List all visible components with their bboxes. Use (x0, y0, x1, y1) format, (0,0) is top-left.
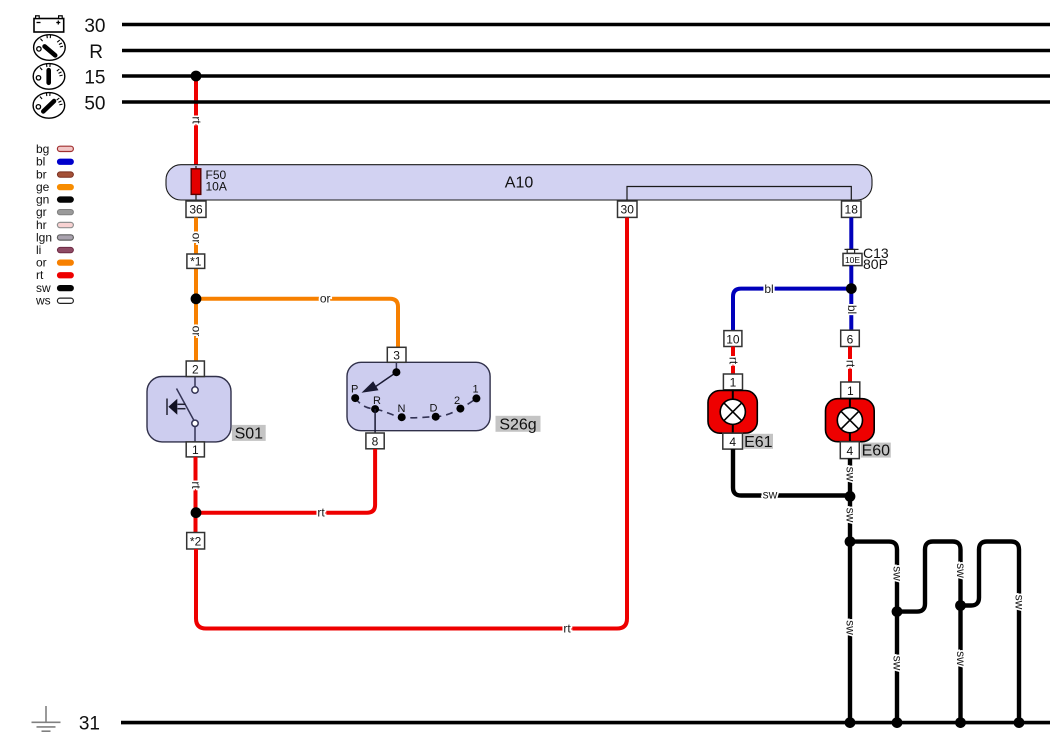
splice *1 (187, 254, 205, 269)
svg-text:10: 10 (726, 332, 740, 346)
svg-text:*2: *2 (190, 535, 202, 549)
svg-text:6: 6 (847, 332, 854, 346)
junction of rt net below S01 (191, 507, 202, 518)
wire sw from E60 pin 4 down to bus 31 (848, 459, 852, 723)
pin 30 of A10 (618, 201, 638, 217)
S26g selector arm with arrow to P (362, 372, 397, 393)
svg-text:A10: A10 (505, 175, 534, 192)
svg-text:10A: 10A (206, 180, 227, 194)
svg-text:sw: sw (1013, 595, 1027, 610)
wire colour legend sw (36, 281, 73, 295)
switch S01 designator label (232, 425, 266, 443)
pin 4 of E60 (840, 442, 859, 459)
junction bus 31 at x=850 (845, 717, 856, 728)
pin 36 of A10 (186, 201, 206, 217)
lamp E61 bulb circle (720, 399, 745, 424)
wire colour legend li (36, 243, 73, 257)
svg-text:R: R (89, 42, 103, 63)
svg-text:1: 1 (847, 384, 854, 398)
ground symbol at bus 31 (32, 706, 61, 731)
S26g common contact lead (395, 362, 397, 372)
S26g position labels P R N D 2 1 (351, 383, 479, 415)
pin 1 of E60 (841, 382, 860, 398)
ground mesh loop 1 wire (850, 542, 897, 723)
wire colour legend ws (35, 294, 73, 308)
wire bl from C13 to junction and E60 pin 6 (849, 266, 853, 331)
wire sw from E61 pin 4 to junction (733, 449, 850, 495)
svg-text:sw: sw (844, 508, 858, 523)
svg-text:or: or (320, 292, 331, 306)
wire colour legend gn (36, 193, 73, 207)
pin 1 of E61 (723, 374, 742, 390)
wire rt from S01 pin 1 to junction and splice *2 (194, 457, 198, 533)
svg-text:ws: ws (35, 294, 51, 308)
lamp E60 body (826, 399, 875, 442)
svg-text:8: 8 (372, 435, 379, 449)
svg-text:*1: *1 (190, 255, 202, 269)
switch S01 internal contacts and blade (177, 377, 199, 442)
svg-text:bl: bl (764, 282, 773, 296)
wire colour legend ge (36, 180, 73, 194)
wire colour legend hr (36, 218, 73, 232)
junction mesh loop 2 (892, 606, 903, 617)
junction sw net at E61 branch (845, 491, 856, 502)
svg-text:10E: 10E (845, 255, 860, 265)
svg-text:rt: rt (844, 360, 858, 368)
svg-text:2: 2 (192, 362, 199, 376)
internal link pin 30 to pin 18 inside A10 (627, 187, 851, 203)
wire bl from A10 pin 18 to connector C13 (849, 218, 853, 250)
lamp E61 internal leads (732, 390, 734, 400)
fuse F50 body (191, 169, 201, 195)
svg-text:1: 1 (192, 443, 199, 457)
svg-text:P: P (351, 383, 358, 395)
pin 1 of S01 (186, 442, 204, 457)
ground mesh loop 3 wire (961, 542, 1020, 723)
junction on bus 15 (191, 71, 202, 82)
junction bus 31 at x=1019 (1014, 717, 1025, 728)
wire or from pin 36 down through *1 to junction and S01 pin 2 (194, 218, 198, 362)
svg-text:sw: sw (891, 656, 905, 671)
lamp E60 internal leads (849, 398, 851, 408)
svg-text:3: 3 (393, 348, 400, 362)
svg-text:4: 4 (729, 435, 736, 449)
fuse F50 lead (195, 166, 197, 201)
ignition switch icon position 15 (33, 64, 65, 90)
ignition switch icon position R (34, 35, 66, 61)
bus 30 wire (122, 23, 1050, 26)
switch S01 box (147, 377, 231, 442)
wire colour legend or (36, 256, 73, 270)
wire colour legend lgn (36, 231, 73, 245)
lamp E61 body (708, 391, 757, 434)
wire bl branch to E61 pin 10 (733, 289, 851, 331)
svg-text:30: 30 (621, 203, 635, 217)
wire colour legend bg (36, 142, 73, 156)
ignition switch icon position 50 (33, 93, 65, 119)
S26g contact dots (351, 368, 480, 421)
lamp E61 designator label (744, 434, 774, 451)
wire rt from S26g pin 8 to junction (196, 449, 375, 513)
wire or branch to S26g pin 3 (196, 299, 398, 348)
wire colour legend rt (36, 268, 73, 282)
control unit A10 box (166, 165, 872, 200)
S26g pin R lead down to pin 8 (374, 409, 376, 433)
wire rt from bus 15 to fuse F50 (194, 76, 198, 169)
junction of or net (191, 293, 202, 304)
pin 18 of A10 (842, 201, 862, 217)
pin 4 of E61 (723, 433, 743, 449)
svg-text:N: N (398, 403, 406, 415)
wire rt from *2 down, across, and up to A10 pin 30 (196, 218, 627, 629)
bus 31 wire (121, 721, 1050, 725)
svg-text:sw: sw (954, 563, 968, 578)
svg-text:or: or (190, 326, 204, 337)
svg-text:18: 18 (845, 203, 859, 217)
svg-text:rt: rt (190, 116, 204, 124)
lamp E60 designator label (861, 443, 891, 460)
svg-text:80P: 80P (863, 256, 888, 272)
svg-text:rt: rt (189, 481, 203, 489)
wire rt pin 10 to E61 pin 1 (731, 347, 735, 375)
svg-text:1: 1 (730, 376, 737, 390)
junction mesh loop 3 (955, 600, 966, 611)
svg-text:30: 30 (84, 16, 105, 37)
pin 10 of E61 (724, 331, 742, 347)
switch S01 actuator (push symbol) (167, 399, 186, 416)
pin 8 of S26g (366, 433, 384, 449)
pin 3 of S26g (387, 347, 406, 362)
svg-text:bl: bl (845, 305, 859, 314)
svg-text:15: 15 (84, 68, 105, 89)
svg-text:31: 31 (79, 714, 100, 735)
svg-text:4: 4 (846, 444, 853, 458)
pin 2 of S01 (186, 361, 204, 377)
selector switch S26g designator label (496, 416, 541, 434)
svg-text:rt: rt (563, 622, 571, 636)
svg-text:sw: sw (844, 620, 858, 635)
svg-text:36: 36 (189, 203, 203, 217)
svg-text:rt: rt (727, 357, 741, 365)
wire rt pin 6 to E60 pin 1 (848, 347, 852, 383)
svg-text:E61: E61 (744, 434, 773, 451)
svg-text:sw: sw (844, 467, 858, 482)
junction bus 31 at x=897 (892, 717, 903, 728)
battery symbol (terminal 30) (34, 16, 64, 32)
connector C13 symbol (845, 249, 859, 253)
lamp E60 bulb circle (837, 408, 862, 433)
svg-text:sw: sw (763, 488, 778, 502)
svg-text:1: 1 (473, 383, 479, 395)
svg-text:sw: sw (954, 651, 968, 666)
splice *2 (187, 533, 205, 550)
selector switch S26g box (347, 362, 490, 430)
pin 6 of E60 (841, 330, 860, 346)
svg-text:R: R (373, 395, 381, 407)
wire colour legend bl (36, 155, 73, 169)
connector C13 pin 10E box (843, 253, 862, 265)
svg-text:2: 2 (454, 395, 460, 407)
svg-text:or: or (190, 233, 204, 244)
ground mesh loop 2 wire (897, 542, 961, 723)
wire colour legend gr (36, 205, 73, 219)
svg-text:50: 50 (84, 94, 105, 115)
svg-text:sw: sw (891, 566, 905, 581)
svg-text:S26g: S26g (499, 416, 536, 433)
svg-text:D: D (430, 402, 438, 414)
svg-text:rt: rt (317, 506, 325, 520)
wire colour legend br (36, 168, 73, 182)
junction bus 31 at x=960 (955, 717, 966, 728)
svg-text:gr: gr (36, 205, 47, 219)
svg-text:E60: E60 (862, 443, 891, 460)
junction of bl net (846, 283, 857, 294)
junction sw net at mesh branch (845, 536, 856, 547)
svg-text:rt: rt (36, 268, 44, 282)
S26g dashed position arc (355, 398, 476, 418)
bus R wire (122, 49, 1050, 52)
bus 15 wire (122, 74, 1050, 77)
bus 50 wire (122, 100, 1050, 103)
svg-text:S01: S01 (235, 426, 264, 443)
